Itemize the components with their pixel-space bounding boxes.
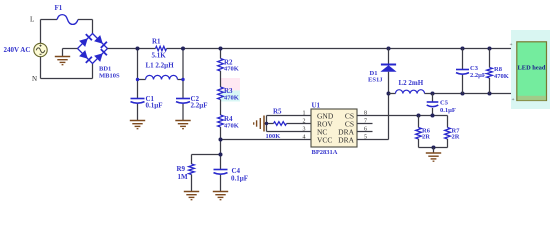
svg-text:L1 2.2µH: L1 2.2µH [146,62,175,70]
svg-text:3: 3 [303,126,306,132]
svg-text:VCC: VCC [317,135,332,144]
svg-text:DRA: DRA [338,135,354,144]
svg-text:470K: 470K [224,95,239,102]
svg-text:470K: 470K [224,66,239,73]
svg-text:4: 4 [303,134,306,140]
svg-text:2.2µF: 2.2µF [191,102,208,110]
svg-text:ES1J: ES1J [368,77,383,84]
svg-text:L2 2mH: L2 2mH [399,79,424,87]
svg-text:N: N [32,75,37,83]
svg-text:2.2µF: 2.2µF [470,72,486,79]
svg-text:MB10S: MB10S [99,73,120,80]
svg-text:0.1µF: 0.1µF [146,102,163,110]
svg-text:0.1µF: 0.1µF [440,107,456,114]
svg-text:470K: 470K [224,123,239,130]
svg-text:2R: 2R [422,134,430,141]
svg-text:0.1µF: 0.1µF [231,175,248,183]
svg-text:C3: C3 [470,65,479,72]
svg-text:BP2831A: BP2831A [312,149,338,156]
svg-text:240V AC: 240V AC [4,46,31,54]
svg-text:+: + [509,42,512,48]
svg-text:100K: 100K [266,133,281,140]
svg-text:5.1K: 5.1K [152,52,167,60]
svg-text:+: + [511,97,514,103]
svg-text:2: 2 [303,118,306,124]
svg-text:C5: C5 [440,100,449,107]
svg-text:470K: 470K [494,73,509,80]
svg-text:2R: 2R [452,134,460,141]
svg-text:1M: 1M [178,173,189,181]
svg-text:R9: R9 [177,165,186,173]
svg-text:R5: R5 [273,108,282,116]
svg-text:R1: R1 [152,38,161,46]
svg-text:LED head: LED head [518,65,546,72]
svg-text:U1: U1 [312,102,321,110]
svg-text:R8: R8 [494,66,503,73]
svg-text:F1: F1 [55,4,63,12]
svg-text:1: 1 [303,110,306,116]
svg-text:BD1: BD1 [99,66,111,73]
svg-text:L: L [30,16,34,24]
